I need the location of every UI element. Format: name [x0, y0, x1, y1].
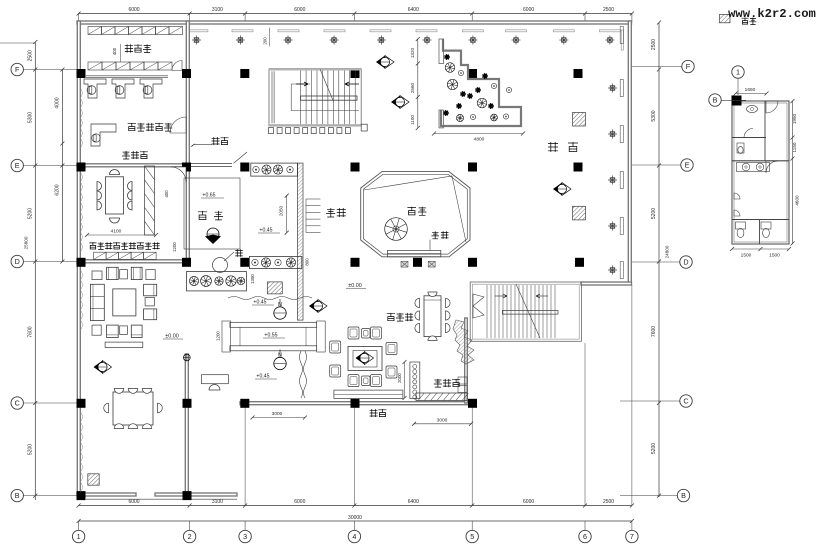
label tea bar — [434, 379, 460, 387]
svg-text:7600: 7600 — [28, 326, 34, 337]
svg-text:25800: 25800 — [24, 236, 29, 249]
wall col2 mid-C-B — [185, 354, 188, 496]
svg-text:6000: 6000 — [128, 7, 139, 13]
outer wall right — [628, 21, 631, 284]
left grid circles F E D C B — [11, 63, 23, 75]
sofa left long — [90, 284, 104, 320]
compass symbol lounge — [94, 361, 112, 374]
compass E tea area — [309, 300, 327, 313]
garden flower rosettes — [444, 54, 450, 60]
wall right-section bottom at row D+ — [581, 282, 632, 285]
grid column stubs — [244, 406, 246, 506]
label atrium — [407, 207, 426, 216]
compass K garden mid — [553, 183, 571, 196]
right dimension line — [658, 23, 660, 498]
toilet fixtures — [747, 105, 758, 112]
toilet axis B — [709, 94, 721, 106]
toilet alcoves — [734, 193, 740, 199]
compass J hall upper — [376, 56, 394, 69]
atrium octagon — [361, 172, 470, 257]
scenic bullseye H — [207, 228, 219, 240]
svg-text:7600: 7600 — [651, 326, 657, 337]
sculpture hatched square lower — [573, 206, 586, 220]
label screen — [431, 231, 448, 239]
meeting table — [105, 177, 123, 214]
svg-text:6000: 6000 — [294, 7, 305, 13]
exterior stair SE — [470, 282, 581, 341]
bottom dimension line row2 30000 — [79, 520, 632, 522]
door arc manager room — [170, 117, 186, 133]
glass label leader — [194, 144, 213, 146]
label material sample display rack — [89, 242, 159, 249]
rock garden stepped wall — [441, 39, 521, 126]
garden trees — [445, 63, 455, 73]
meeting chairs — [97, 182, 102, 191]
svg-text:1200: 1200 — [215, 331, 220, 341]
svg-text:6000: 6000 — [523, 499, 534, 505]
svg-text:E: E — [15, 161, 20, 170]
atrium spiral tree — [385, 218, 408, 241]
door leaf scenic room entrance — [234, 152, 248, 163]
svg-text:30000: 30000 — [348, 515, 362, 521]
toilet axis 1 — [732, 66, 744, 78]
dim 3000 left — [253, 417, 306, 419]
dim 2050 — [286, 196, 288, 233]
wall row E left section — [77, 164, 190, 167]
tree planting box west — [187, 272, 247, 291]
left inner dimension line — [61, 70, 63, 262]
toilet partitions — [732, 137, 766, 139]
toilet dims right — [792, 101, 794, 244]
tea long table — [424, 296, 441, 337]
svg-text:6400: 6400 — [408, 499, 419, 505]
svg-text:2: 2 — [188, 532, 192, 541]
atrium fold lines — [364, 176, 466, 242]
hatched exhibition wall east of scenic area — [297, 163, 303, 320]
toilet WCs bottom — [736, 222, 746, 229]
wall row D left section — [77, 260, 190, 263]
svg-text:+0.45: +0.45 — [256, 374, 269, 380]
svg-text:5200: 5200 — [28, 444, 34, 455]
svg-text:1500: 1500 — [769, 253, 780, 259]
scenic room platform — [184, 178, 240, 249]
svg-text:±0.00: ±0.00 — [348, 283, 361, 289]
legend label sculpture — [742, 18, 757, 25]
svg-text:6200: 6200 — [55, 184, 61, 195]
steps east of scenic room — [306, 198, 321, 200]
label fireplace — [370, 409, 387, 417]
svg-text:200: 200 — [263, 37, 268, 45]
columns row E — [77, 163, 86, 172]
partition line under row F — [86, 75, 168, 77]
svg-text:3000: 3000 — [272, 411, 283, 417]
svg-text:1: 1 — [736, 68, 740, 77]
wall col2 E-D (scenic west) — [186, 166, 189, 262]
svg-text:6000: 6000 — [294, 499, 305, 505]
svg-text:D: D — [15, 257, 20, 266]
door arc meeting room north — [171, 167, 186, 182]
outer wall top — [77, 21, 632, 24]
columns row B — [77, 491, 86, 500]
manager L desk — [91, 124, 116, 146]
svg-text:1100: 1100 — [410, 115, 415, 125]
light fixture bars below top wall — [187, 30, 208, 32]
archive room cabinets top — [88, 27, 102, 35]
label archive room — [125, 44, 151, 52]
wall row C c3-c5 — [240, 402, 474, 405]
hatched square water area — [267, 282, 282, 294]
svg-text:400: 400 — [164, 190, 169, 198]
tea stools — [348, 327, 359, 339]
sculpture hatched square upper — [573, 113, 586, 127]
svg-text:4800: 4800 — [474, 137, 485, 143]
svg-text:6000: 6000 — [523, 7, 534, 13]
ceiling symbols top hall — [192, 36, 201, 45]
label tea tasting area — [387, 313, 413, 321]
label exhibition area right — [548, 142, 578, 152]
svg-text:+0.45: +0.45 — [259, 228, 272, 234]
label chief engineer office — [128, 123, 173, 131]
display cabinet strip meeting room — [145, 166, 155, 235]
toilet dims bottom — [732, 248, 789, 250]
sofa low table bottom — [105, 342, 143, 347]
sofa center table — [113, 289, 136, 316]
dim 2000 — [404, 362, 406, 398]
flower planter row E — [251, 163, 298, 176]
dim 4100 — [87, 234, 156, 236]
svg-text:4600: 4600 — [795, 195, 800, 206]
svg-text:7: 7 — [630, 532, 634, 541]
curtain wall zigzag left upper — [81, 88, 83, 148]
svg-text:±0.00: ±0.00 — [165, 334, 178, 340]
tea room east wall — [465, 318, 468, 403]
svg-text:1: 1 — [77, 532, 81, 541]
sofa group top row — [92, 271, 102, 280]
pond wavy edges — [228, 297, 312, 300]
curtain wall zigzag left — [81, 270, 84, 330]
toilet detail column — [732, 96, 742, 106]
svg-text:D: D — [683, 258, 688, 267]
sofa bottom row — [92, 325, 101, 335]
svg-text:+0.55: +0.55 — [264, 333, 277, 339]
svg-text:1500: 1500 — [741, 253, 752, 259]
svg-text:1320: 1320 — [410, 47, 415, 58]
bridge — [230, 322, 317, 327]
svg-text:1950: 1950 — [792, 113, 797, 124]
outer wall left — [77, 21, 80, 496]
display shelf band above row D — [94, 252, 107, 259]
svg-text:1150: 1150 — [792, 142, 797, 152]
bottom dimension line row1 — [79, 505, 632, 507]
svg-text:1200: 1200 — [172, 242, 177, 252]
top dimension line — [79, 13, 632, 15]
svg-text:1350: 1350 — [250, 274, 255, 284]
columns row C — [77, 399, 86, 408]
garden dimension line — [417, 39, 419, 128]
svg-text:E: E — [685, 161, 690, 170]
stools below atrium — [401, 261, 408, 267]
legend hatched square — [720, 14, 731, 22]
bench along wall — [334, 390, 403, 398]
svg-text:C: C — [15, 399, 20, 408]
svg-text:5200: 5200 — [651, 443, 657, 454]
svg-text:6: 6 — [583, 532, 587, 541]
office desks with chairs — [84, 79, 106, 98]
tea bar small boxes — [458, 377, 467, 384]
label scenic area — [198, 211, 223, 220]
svg-text:1650: 1650 — [745, 87, 756, 93]
svg-text:2500: 2500 — [603, 7, 614, 13]
svg-text:3: 3 — [243, 532, 247, 541]
right grid circles F E D C B — [682, 60, 694, 72]
svg-text:F: F — [15, 65, 20, 74]
main stair F-E hall — [269, 69, 361, 126]
label glass — [212, 137, 229, 145]
toilet door arcs — [766, 101, 778, 113]
service desk — [202, 375, 229, 384]
svg-text:2500: 2500 — [651, 39, 657, 50]
radiator bars on right wall inner face — [620, 27, 623, 44]
stair balusters row — [269, 128, 274, 134]
svg-text:B: B — [15, 491, 20, 500]
svg-text:2500: 2500 — [603, 499, 614, 505]
svg-text:24800: 24800 — [665, 245, 670, 258]
label exhibition area mid — [326, 208, 346, 217]
svg-text:5: 5 — [470, 532, 474, 541]
columns row D — [77, 258, 86, 267]
svg-text:2000: 2000 — [397, 373, 402, 383]
bullseye marker col2 — [183, 354, 190, 361]
square tea table group — [348, 347, 382, 371]
wall row B bottom segments — [77, 493, 136, 496]
garden 4800 dimension — [434, 133, 523, 135]
double door to stair — [473, 294, 484, 318]
svg-text:2500: 2500 — [28, 50, 34, 61]
svg-text:4000: 4000 — [55, 97, 61, 108]
toilet detail outline — [732, 101, 789, 244]
sofa right seats — [144, 284, 157, 296]
rockery stones — [453, 320, 474, 364]
columns row F — [77, 69, 86, 78]
dining table with chairs — [113, 392, 153, 425]
N symbols — [274, 307, 286, 319]
svg-text:3100: 3100 — [212, 7, 223, 13]
svg-text:5200: 5200 — [28, 208, 34, 219]
archive door arc — [172, 61, 182, 71]
archive room cabinets bottom — [88, 62, 102, 70]
dim 3000 right — [414, 423, 471, 425]
svg-text:3100: 3100 — [212, 499, 223, 505]
svg-text:4100: 4100 — [111, 229, 122, 235]
svg-text:+0.65: +0.65 — [202, 193, 215, 199]
tea bar hatch counter — [416, 393, 467, 401]
svg-text:C: C — [683, 397, 688, 406]
left dimension line — [34, 42, 36, 500]
svg-text:6400: 6400 — [408, 7, 419, 13]
svg-text:B: B — [681, 491, 686, 500]
svg-text:www.k2r2.com: www.k2r2.com — [728, 7, 816, 21]
svg-text:6000: 6000 — [128, 499, 139, 505]
ceiling symbols right wall — [608, 84, 617, 93]
flower planter row D — [249, 257, 301, 269]
svg-text:2050: 2050 — [279, 205, 284, 216]
svg-text:B: B — [713, 96, 718, 105]
well circle — [213, 258, 228, 273]
hatched square lounge — [88, 474, 99, 485]
tea long table chairs — [415, 298, 420, 307]
svg-text:400: 400 — [112, 47, 117, 55]
label engineering dept — [122, 151, 148, 159]
tea counter with stools — [410, 362, 420, 399]
svg-text:3000: 3000 — [437, 417, 448, 423]
svg-text:800: 800 — [305, 258, 310, 266]
wall col2 F-E — [186, 21, 189, 166]
corner moulding NE — [621, 30, 623, 50]
atrium bench — [387, 250, 440, 256]
wall row E c2-c3 thin — [190, 162, 232, 164]
label well — [235, 249, 243, 257]
compass L hall mid — [391, 96, 409, 109]
svg-text:2560: 2560 — [410, 82, 415, 93]
svg-text:5200: 5200 — [651, 208, 657, 219]
svg-text:5300: 5300 — [28, 112, 34, 123]
svg-text:+0.45: +0.45 — [253, 300, 266, 306]
toilet dim 1650 — [736, 93, 767, 95]
bottom grid circles 1-7 — [72, 530, 84, 542]
svg-text:4: 4 — [352, 532, 356, 541]
svg-text:F: F — [686, 62, 691, 71]
svg-text:5300: 5300 — [651, 110, 657, 121]
